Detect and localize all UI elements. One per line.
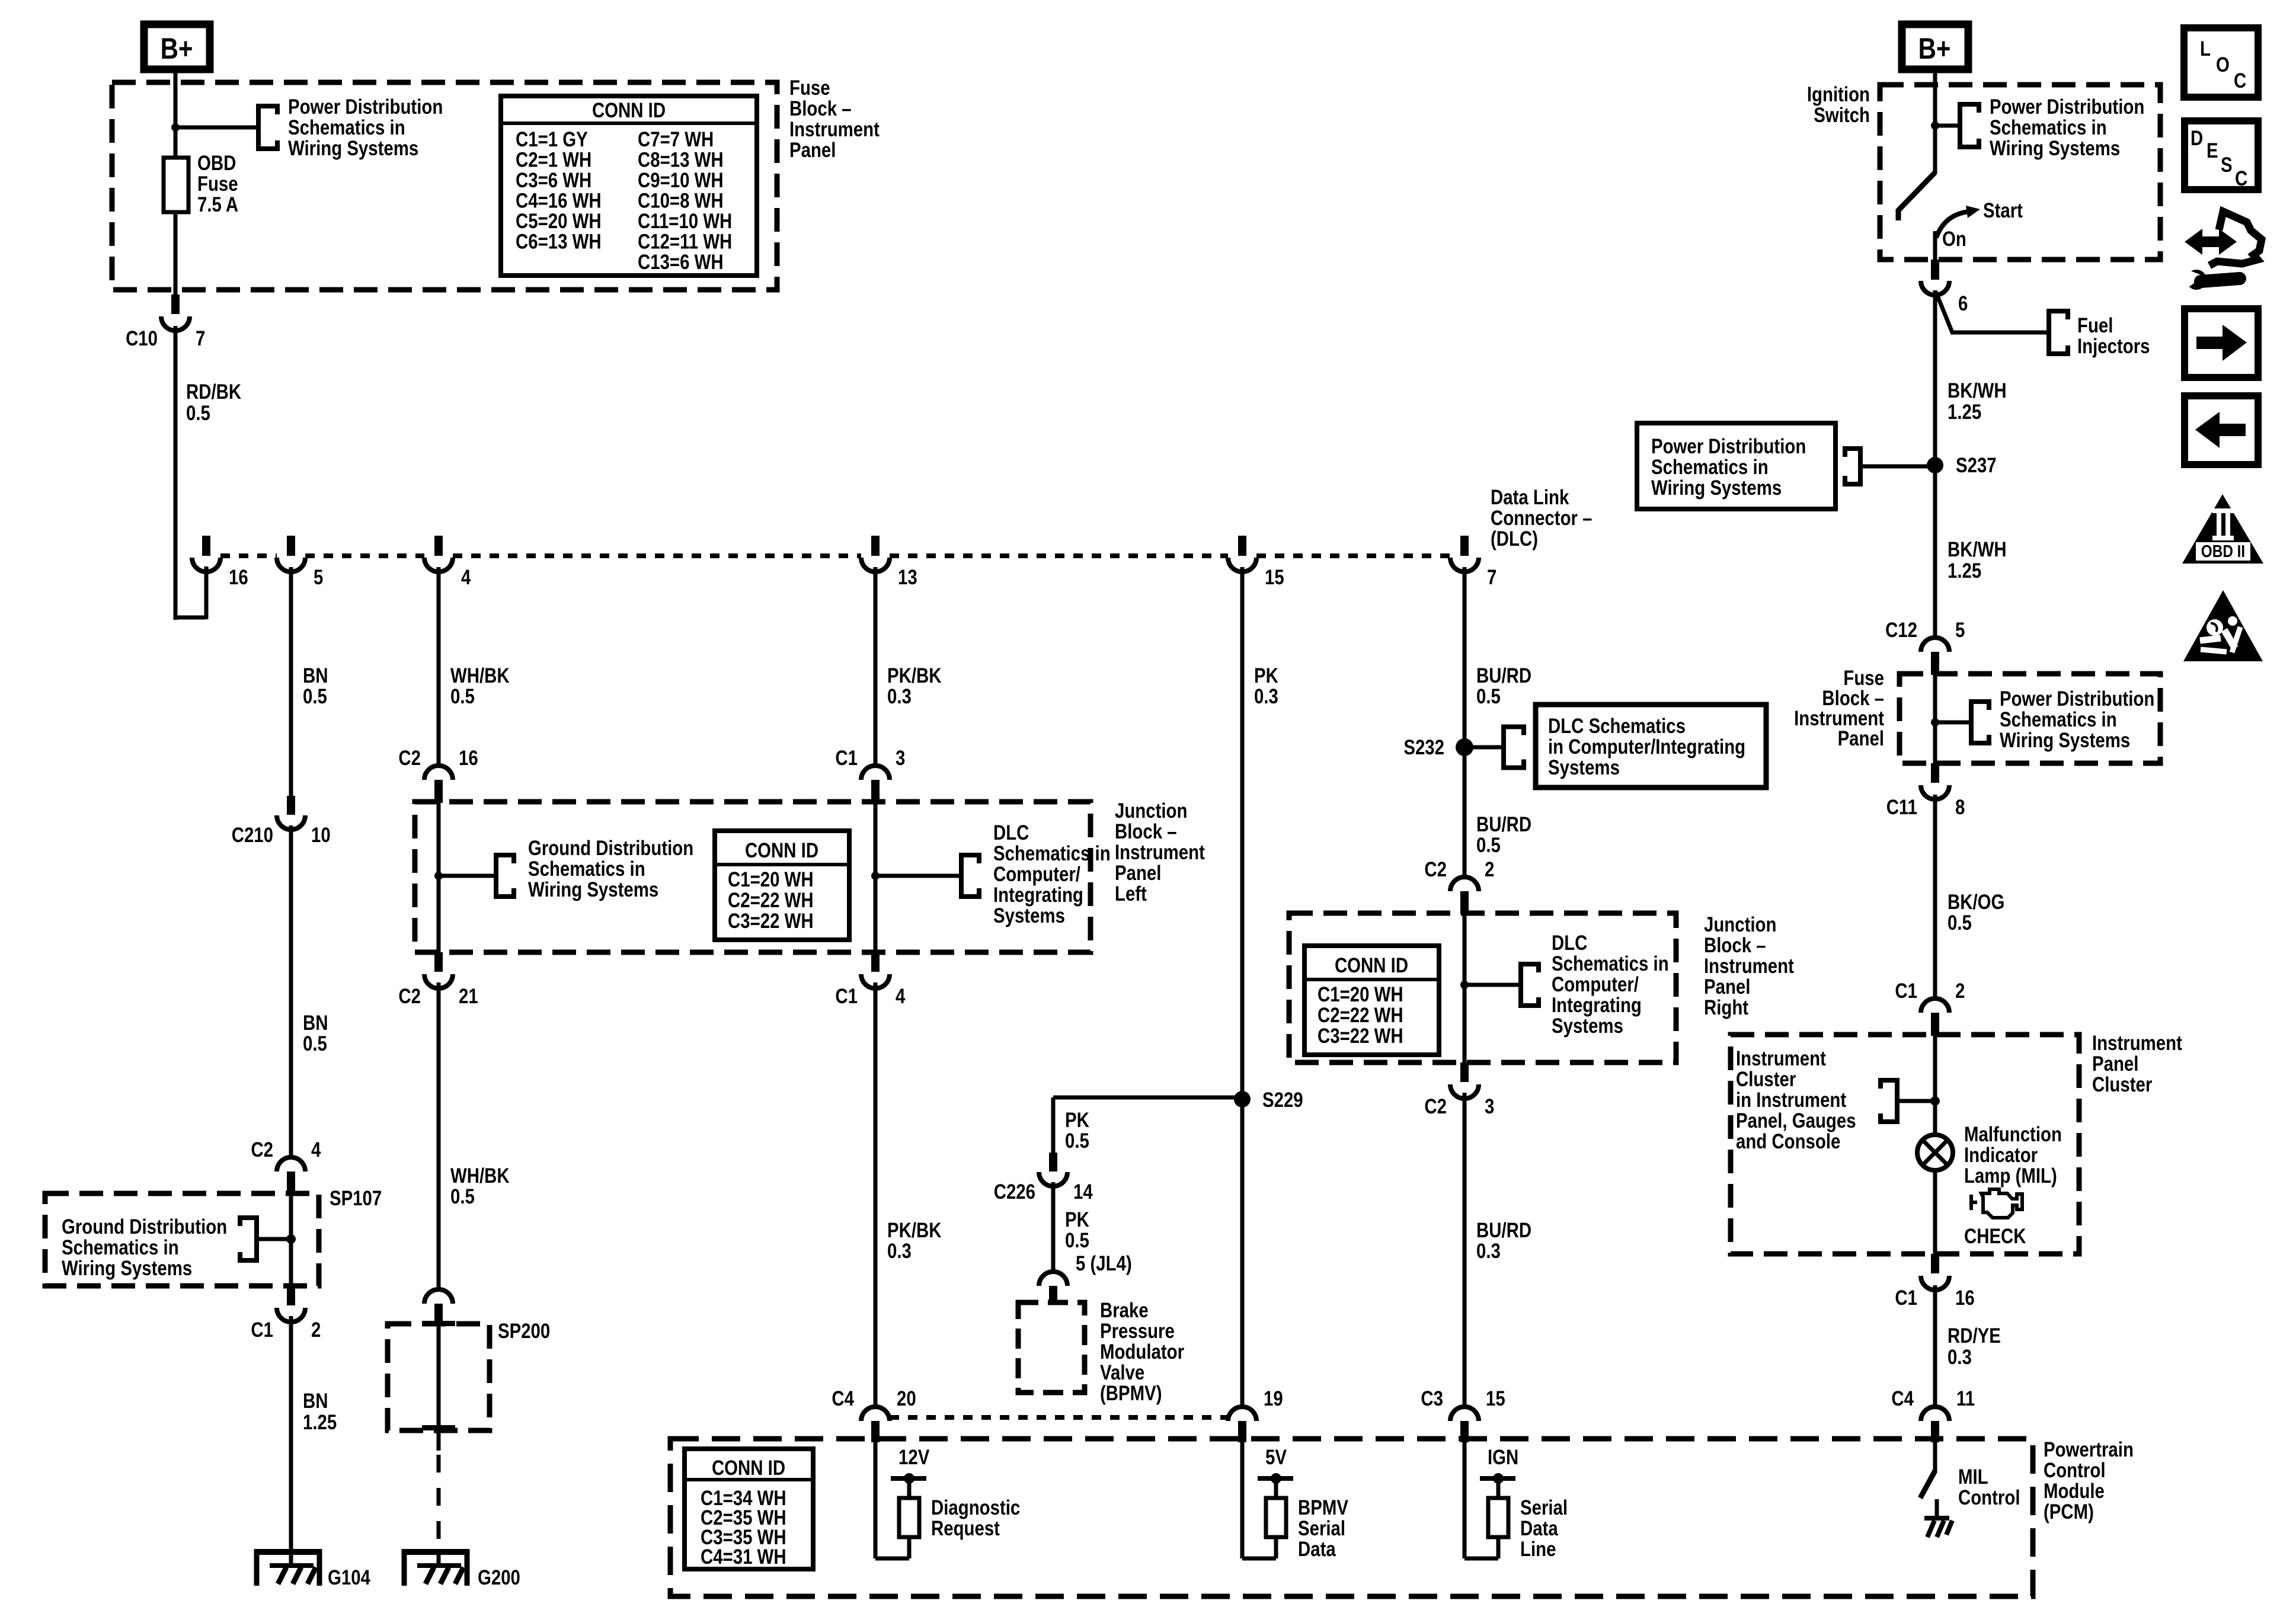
svg-text:C1: C1 (835, 747, 858, 770)
svg-text:SP200: SP200 (498, 1320, 550, 1343)
svg-text:CONN ID: CONN ID (592, 99, 666, 122)
svg-text:1.25: 1.25 (1948, 559, 1981, 582)
connector C2 3 exit (1460, 1062, 1469, 1082)
svg-text:C1: C1 (251, 1318, 273, 1342)
svg-text:B+: B+ (1918, 32, 1951, 65)
connector into SP200 (424, 1289, 453, 1304)
svg-text:SP107: SP107 (330, 1187, 382, 1210)
svg-text:0.3: 0.3 (1476, 1240, 1501, 1263)
service tool icon (arrows + wrench) (2181, 212, 2262, 290)
wire WH/BK 0.5 (C2/21 to SP200) (437, 982, 441, 1291)
svg-text:BN: BN (303, 1012, 328, 1035)
power distribution reference box (S237) (1637, 423, 1835, 509)
CONN ID table (junction block left) (715, 831, 849, 940)
svg-text:Systems: Systems (1548, 756, 1620, 779)
svg-text:Schematics in: Schematics in (62, 1236, 179, 1259)
svg-text:Schematics in: Schematics in (528, 857, 645, 881)
instrument panel cluster box (1731, 1035, 2079, 1254)
svg-text:7.5 A: 7.5 A (197, 193, 238, 216)
svg-text:3: 3 (896, 747, 905, 770)
svg-text:Schematics in: Schematics in (1552, 952, 1669, 975)
svg-text:0.5: 0.5 (1476, 834, 1501, 857)
svg-text:Injectors: Injectors (2077, 335, 2150, 358)
svg-text:Serial: Serial (1520, 1496, 1568, 1519)
svg-text:C3=22 WH: C3=22 WH (728, 910, 814, 933)
data link connector dotted row (220, 553, 277, 558)
svg-text:0.3: 0.3 (1254, 685, 1278, 708)
svg-text:0.5: 0.5 (1065, 1229, 1089, 1252)
svg-text:Wiring Systems: Wiring Systems (288, 137, 418, 160)
svg-text:Schematics in: Schematics in (993, 842, 1111, 865)
connector C1 2 enter (1921, 998, 1949, 1013)
connector C2 21 exit (434, 952, 443, 972)
connector C2 16 enter (424, 766, 453, 780)
svg-text:5: 5 (1955, 619, 1965, 642)
svg-text:C2: C2 (251, 1138, 273, 1161)
svg-text:C1: C1 (835, 985, 858, 1008)
PCM input 12V (874, 1442, 878, 1558)
svg-text:10: 10 (311, 824, 331, 847)
svg-text:BK/OG: BK/OG (1948, 891, 2004, 914)
svg-text:C9=10 WH: C9=10 WH (638, 169, 724, 192)
forward arrow icon box (2185, 309, 2258, 377)
svg-text:Systems: Systems (993, 904, 1065, 927)
wire B+ into ignition switch (1933, 69, 1937, 174)
svg-text:Connector –: Connector – (1491, 507, 1592, 530)
OBD II warning triangle (2182, 494, 2263, 564)
connector C1 4 exit (871, 952, 880, 972)
svg-text:Integrating: Integrating (1552, 994, 1642, 1017)
svg-text:Systems: Systems (1552, 1014, 1623, 1038)
svg-text:C210: C210 (232, 824, 273, 847)
svg-text:BU/RD: BU/RD (1476, 1219, 1531, 1242)
svg-text:Fuse: Fuse (789, 76, 830, 100)
svg-text:15: 15 (1265, 566, 1284, 589)
svg-text:Power Distribution: Power Distribution (288, 95, 443, 119)
connector C2 4 enter (277, 1157, 305, 1172)
svg-text:C11: C11 (1886, 796, 1917, 819)
svg-text:C4=31 WH: C4=31 WH (701, 1545, 786, 1569)
wire RD/YE 0.3 (1933, 1285, 1937, 1407)
wire PK/BK 0.3 (pin13 to C1/3) (874, 567, 878, 766)
wire PK/BK 0.3 (C1/4 to C4/20) (874, 982, 878, 1407)
svg-text:Computer/: Computer/ (993, 863, 1080, 886)
svg-text:in Computer/Integrating: in Computer/Integrating (1548, 735, 1745, 758)
svg-text:Brake: Brake (1100, 1299, 1149, 1322)
bracket DLC schematics ref (junction right) (1521, 964, 1539, 1006)
svg-text:Schematics in: Schematics in (2000, 708, 2117, 731)
svg-text:C2: C2 (1424, 1095, 1447, 1118)
svg-text:Power Distribution: Power Distribution (2000, 687, 2154, 710)
svg-text:Instrument: Instrument (2092, 1032, 2182, 1055)
svg-text:DLC: DLC (993, 821, 1029, 844)
wire inside fuse block right (1933, 674, 1937, 763)
connector into BPMV (1039, 1272, 1067, 1286)
PCM input 5V (1240, 1442, 1245, 1558)
svg-text:BPMV: BPMV (1298, 1496, 1348, 1519)
ignition switch box (1880, 85, 2160, 260)
svg-text:Powertrain: Powertrain (2044, 1438, 2134, 1461)
svg-text:7: 7 (196, 327, 205, 350)
bracket ground distribution ref (junction left) (496, 855, 514, 897)
node: feed junction (171, 123, 180, 132)
wire inside cluster (1933, 1035, 1937, 1136)
splice pack SP200 box (388, 1324, 490, 1430)
svg-text:2: 2 (311, 1318, 321, 1342)
svg-text:and Console: and Console (1736, 1130, 1840, 1153)
svg-text:C2=22 WH: C2=22 WH (728, 889, 814, 912)
svg-text:PK: PK (1065, 1208, 1089, 1231)
svg-text:C4: C4 (832, 1387, 854, 1410)
wire inside junction block left (col D) (874, 802, 878, 952)
svg-text:(DLC): (DLC) (1491, 527, 1538, 550)
svg-text:C12=11 WH: C12=11 WH (638, 230, 732, 253)
battery B+ terminal (left) (144, 24, 210, 69)
svg-text:C1=20 WH: C1=20 WH (1318, 983, 1403, 1006)
bracket instrument cluster ref (1881, 1080, 1897, 1122)
svg-text:5: 5 (314, 566, 323, 589)
svg-text:4: 4 (311, 1138, 321, 1161)
connector pin 6 (1931, 260, 1939, 280)
svg-text:BN: BN (303, 664, 328, 687)
svg-text:C2=1 WH: C2=1 WH (516, 148, 591, 171)
svg-text:Panel: Panel (1115, 862, 1161, 885)
svg-text:C1: C1 (1895, 1286, 1917, 1310)
svg-text:C7=7 WH: C7=7 WH (638, 128, 714, 151)
svg-text:S237: S237 (1956, 454, 1997, 477)
connector C10 7 exit (171, 295, 180, 314)
svg-text:C2: C2 (398, 747, 421, 770)
svg-text:0.3: 0.3 (887, 685, 912, 708)
connector C210 10 inline (287, 796, 295, 815)
svg-text:Wiring Systems: Wiring Systems (2000, 729, 2130, 752)
svg-text:C3=22 WH: C3=22 WH (1318, 1025, 1403, 1048)
svg-text:Block –: Block – (1115, 820, 1177, 843)
wire inside junction block right (1463, 913, 1467, 1062)
bracket power distribution ref (fuse block right) (1971, 702, 1989, 743)
svg-text:Integrating: Integrating (993, 884, 1083, 907)
PCM pin C4 20 (861, 1407, 890, 1421)
svg-text:Pressure: Pressure (1100, 1320, 1175, 1343)
wire inside junction block left (col C) (437, 802, 441, 952)
bracket DLC schematics ref (S232) (1504, 727, 1524, 768)
svg-text:21: 21 (459, 985, 478, 1008)
svg-text:Instrument: Instrument (1115, 841, 1205, 864)
svg-text:2: 2 (1955, 980, 1965, 1003)
svg-text:Wiring Systems: Wiring Systems (62, 1257, 192, 1280)
svg-text:RD/YE: RD/YE (1948, 1324, 2001, 1347)
DLC pin 5 (287, 536, 295, 556)
DLC pin 4 (434, 536, 443, 556)
powertrain control module box (670, 1439, 2033, 1596)
svg-text:Block –: Block – (1704, 934, 1766, 957)
PCM pin C3 15 (1450, 1407, 1479, 1421)
svg-text:WH/BK: WH/BK (450, 1164, 510, 1188)
svg-text:DLC: DLC (1552, 932, 1587, 955)
bracket ground distribution ref (SP107) (240, 1218, 257, 1260)
svg-text:Computer/: Computer/ (1552, 973, 1639, 996)
svg-text:Cluster: Cluster (2092, 1073, 2153, 1096)
svg-text:DLC Schematics: DLC Schematics (1548, 715, 1686, 738)
svg-text:CONN ID: CONN ID (1335, 954, 1408, 977)
wire inside SP200 (437, 1326, 441, 1425)
wire RD/BK 0.5 (174, 326, 178, 620)
svg-text:Right: Right (1704, 996, 1748, 1019)
svg-text:PK/BK: PK/BK (887, 1219, 942, 1242)
PCM pin 19 (1228, 1407, 1256, 1421)
svg-text:in Instrument: in Instrument (1736, 1089, 1846, 1112)
svg-text:MIL: MIL (1958, 1465, 1988, 1489)
svg-text:0.5: 0.5 (186, 402, 210, 425)
connector C11 8 exit (1931, 763, 1939, 783)
svg-text:6: 6 (1958, 292, 1968, 315)
svg-text:Panel: Panel (1704, 975, 1750, 998)
connector C1 16 exit (1931, 1254, 1939, 1273)
svg-text:C1: C1 (1895, 980, 1917, 1003)
connector C2 2 enter (1450, 877, 1479, 891)
svg-text:Lamp (MIL): Lamp (MIL) (1964, 1164, 2057, 1188)
malfunction indicator lamp (MIL) (1917, 1135, 1953, 1170)
svg-text:0.5: 0.5 (303, 1032, 327, 1055)
wire lamp to C1/16 (1933, 1170, 1937, 1254)
svg-text:Instrument: Instrument (789, 118, 880, 141)
svg-text:G200: G200 (478, 1566, 520, 1589)
svg-text:20: 20 (897, 1387, 916, 1410)
svg-text:PK: PK (1065, 1109, 1089, 1132)
svg-text:IGN: IGN (1488, 1446, 1518, 1469)
svg-text:Fuse: Fuse (197, 172, 238, 196)
back arrow icon box (2185, 396, 2258, 465)
svg-text:Malfunction: Malfunction (1964, 1123, 2062, 1146)
svg-text:0.5: 0.5 (303, 685, 327, 708)
svg-text:16: 16 (229, 566, 248, 589)
fuse block - instrument panel box (right) (1900, 674, 2160, 763)
ground G200 (402, 1549, 469, 1555)
svg-text:C3=6 WH: C3=6 WH (516, 169, 591, 192)
svg-text:Junction: Junction (1704, 913, 1776, 936)
svg-text:Left: Left (1115, 882, 1147, 905)
junction block - instrument panel right box (1289, 913, 1676, 1062)
svg-text:0.3: 0.3 (887, 1240, 912, 1263)
svg-text:Switch: Switch (1814, 104, 1870, 127)
svg-text:0.5: 0.5 (1065, 1129, 1089, 1153)
svg-text:Diagnostic: Diagnostic (931, 1496, 1020, 1519)
svg-text:Cluster: Cluster (1736, 1068, 1796, 1091)
fuse block instrument panel box (left) (112, 82, 777, 290)
svg-text:C1=1 GY: C1=1 GY (516, 128, 588, 151)
svg-text:Data Link: Data Link (1491, 486, 1569, 509)
wire BN 1.25 (289, 1316, 293, 1568)
start position arc with arrow (1936, 212, 1969, 238)
svg-text:Panel: Panel (2092, 1052, 2138, 1076)
svg-text:C4=16 WH: C4=16 WH (516, 189, 602, 212)
check engine icon (1971, 1189, 2022, 1218)
wire inside SP107 (289, 1193, 293, 1286)
svg-text:Request: Request (931, 1517, 1000, 1540)
DLC schematics reference box (1536, 705, 1766, 788)
svg-text:Junction: Junction (1115, 799, 1187, 822)
svg-text:C10: C10 (126, 327, 158, 350)
svg-text:11: 11 (1956, 1387, 1975, 1410)
LOC icon box (2184, 28, 2258, 97)
svg-text:C4: C4 (1891, 1387, 1914, 1410)
svg-text:(PCM): (PCM) (2044, 1500, 2094, 1523)
svg-text:S229: S229 (1262, 1089, 1303, 1112)
svg-text:C2=22 WH: C2=22 WH (1318, 1004, 1403, 1027)
svg-text:Panel: Panel (789, 139, 836, 162)
svg-text:Start: Start (1983, 199, 2023, 222)
svg-text:0.5: 0.5 (1948, 911, 1972, 934)
svg-text:(BPMV): (BPMV) (1100, 1382, 1162, 1405)
wire to power distribution reference (175, 126, 258, 130)
svg-text:Line: Line (1520, 1538, 1556, 1561)
bracket fuel injectors (2049, 311, 2068, 354)
bracket power distribution ref (ignition) (1960, 104, 1979, 147)
svg-text:C12: C12 (1885, 619, 1917, 642)
wire fuse to C10 (174, 212, 178, 296)
wire WH/BK 0.5 (pin4 to C2/16) (437, 567, 441, 766)
CONN ID table (fuse block left) (501, 96, 757, 276)
wire PK 0.3 (pin15 down) (1240, 567, 1245, 1407)
PCM input IGN (1463, 1442, 1467, 1558)
wire BU/RD 0.3 (C2/3 to C3/15) (1463, 1093, 1467, 1407)
svg-text:5 (JL4): 5 (JL4) (1076, 1252, 1132, 1275)
brake pressure modulator valve box (1018, 1302, 1085, 1393)
svg-text:4: 4 (461, 566, 471, 589)
splice S229 (1234, 1091, 1251, 1108)
svg-text:0.5: 0.5 (450, 1185, 475, 1208)
svg-text:12V: 12V (898, 1446, 930, 1469)
svg-text:S: S (2221, 153, 2233, 177)
svg-text:C5=20 WH: C5=20 WH (516, 210, 602, 233)
wire BK/OG 0.5 (1933, 795, 1937, 999)
DESC icon box (2185, 121, 2258, 190)
svg-text:Control: Control (1958, 1486, 2020, 1509)
wire to DLC schematics ref box (1464, 745, 1504, 750)
svg-text:Schematics in: Schematics in (1990, 116, 2107, 139)
svg-text:C11=10 WH: C11=10 WH (638, 210, 732, 233)
svg-text:PK/BK: PK/BK (887, 664, 942, 687)
DLC pin 16 (202, 536, 210, 556)
svg-text:Panel, Gauges: Panel, Gauges (1736, 1109, 1856, 1132)
svg-text:C: C (2235, 167, 2247, 190)
svg-text:Panel: Panel (1838, 727, 1884, 750)
svg-text:Schematics in: Schematics in (1651, 456, 1769, 479)
svg-text:On: On (1942, 228, 1966, 251)
svg-text:C8=13 WH: C8=13 WH (638, 148, 724, 171)
svg-text:0.5: 0.5 (1476, 685, 1501, 708)
svg-text:D: D (2191, 127, 2203, 150)
svg-text:14: 14 (1073, 1180, 1093, 1204)
svg-text:BK/WH: BK/WH (1948, 538, 2007, 561)
svg-text:B+: B+ (161, 32, 193, 65)
svg-text:CONN ID: CONN ID (712, 1457, 785, 1480)
svg-text:0.5: 0.5 (450, 685, 475, 708)
ground G104 (254, 1549, 322, 1555)
svg-text:7: 7 (1487, 566, 1496, 589)
svg-text:L: L (2200, 37, 2211, 60)
junction block - instrument panel left box (415, 802, 1091, 952)
svg-text:16: 16 (1955, 1286, 1975, 1310)
svg-text:Schematics in: Schematics in (288, 116, 405, 139)
CONN ID table (PCM) (685, 1449, 813, 1569)
bracket: power distribution ref (left fuse block) (258, 106, 277, 149)
splice S237 (1927, 457, 1943, 473)
MIL control switch in PCM (1933, 1442, 1937, 1472)
connector C1 2 exit (287, 1286, 295, 1305)
svg-text:O: O (2216, 53, 2230, 76)
svg-text:2: 2 (1485, 858, 1494, 881)
ignition switch blade (1898, 172, 1935, 220)
svg-text:3: 3 (1485, 1095, 1494, 1118)
wire B+ to fuse (174, 69, 178, 158)
svg-text:OBD II: OBD II (2201, 542, 2245, 561)
svg-text:13: 13 (898, 566, 917, 589)
wire BN 0.5 (pin5 to C210) (289, 567, 293, 796)
DLC pin 7 (1460, 536, 1469, 556)
svg-text:Data: Data (1520, 1517, 1559, 1540)
svg-text:1.25: 1.25 (1948, 401, 1981, 424)
bracket DLC schematics ref (junction left) (961, 855, 979, 897)
wire BK/WH 1.25 (S237 to C12) (1933, 465, 1937, 638)
svg-text:Data: Data (1298, 1538, 1336, 1561)
svg-text:Instrument: Instrument (1736, 1047, 1826, 1070)
svg-text:S232: S232 (1403, 736, 1444, 759)
svg-text:Modulator: Modulator (1100, 1340, 1184, 1363)
svg-text:Module: Module (2044, 1480, 2105, 1503)
svg-text:16: 16 (459, 747, 478, 770)
svg-text:Instrument: Instrument (1704, 955, 1794, 978)
svg-text:RD/BK: RD/BK (186, 380, 242, 404)
svg-text:G104: G104 (328, 1566, 370, 1589)
svg-text:CHECK: CHECK (1964, 1225, 2026, 1248)
wire On position down (1933, 231, 1937, 262)
svg-text:4: 4 (896, 985, 905, 1008)
PCM dotted connector row (890, 1415, 1228, 1420)
battery B+ terminal (right) (1902, 24, 1968, 69)
connector C12 5 enter (1921, 638, 1949, 652)
svg-text:C2: C2 (1424, 858, 1447, 881)
svg-text:CONN ID: CONN ID (745, 839, 818, 862)
svg-text:C3: C3 (1421, 1387, 1443, 1410)
connector C1 3 enter (861, 766, 890, 780)
svg-text:BU/RD: BU/RD (1476, 813, 1531, 836)
svg-text:WH/BK: WH/BK (450, 664, 510, 687)
svg-text:15: 15 (1486, 1387, 1505, 1410)
svg-text:C13=6 WH: C13=6 WH (638, 251, 724, 274)
wire jog to DLC pin 16 (175, 616, 206, 620)
svg-text:PK: PK (1254, 664, 1278, 687)
splice pack SP107 box (45, 1193, 319, 1286)
svg-text:Valve: Valve (1100, 1361, 1144, 1384)
svg-text:Block –: Block – (789, 97, 852, 120)
svg-text:C10=8 WH: C10=8 WH (638, 189, 724, 212)
svg-text:Ground Distribution: Ground Distribution (62, 1215, 227, 1238)
svg-text:Power Distribution: Power Distribution (1990, 95, 2144, 119)
bracket (S237 ref box) (1845, 449, 1860, 484)
svg-text:Wiring Systems: Wiring Systems (528, 878, 658, 901)
svg-text:19: 19 (1264, 1387, 1283, 1410)
wire to fuel injectors branch (1936, 292, 2049, 332)
svg-text:E: E (2207, 139, 2218, 162)
wire BK/WH 1.25 (pin6 to S237) (1933, 290, 1937, 466)
DLC pin 13 (871, 536, 880, 556)
svg-text:Wiring Systems: Wiring Systems (1651, 476, 1782, 500)
PCM pin C4 11 (1921, 1407, 1949, 1421)
DLC pin 15 (1238, 536, 1246, 556)
svg-text:Ignition: Ignition (1807, 83, 1870, 106)
branch wire to BPMV (1053, 1096, 1242, 1100)
